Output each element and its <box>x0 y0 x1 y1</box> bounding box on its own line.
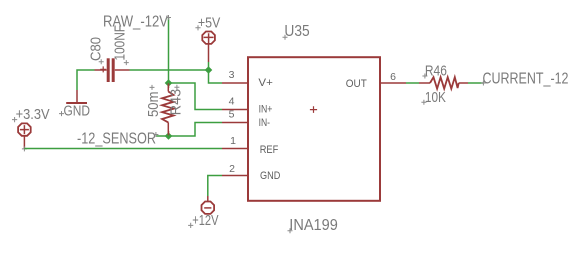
label origin cross CURRENT_-12 <box>481 81 486 86</box>
supply symbol +12V octagon <box>202 202 215 214</box>
label origin cross C80 <box>99 59 104 64</box>
gnd stem red <box>76 90 78 103</box>
svg-text:U35: U35 <box>284 23 309 40</box>
svg-text:OUT: OUT <box>346 78 367 90</box>
wire cap to +5V node <box>130 69 209 71</box>
label origin cross R46 <box>422 74 427 79</box>
wire C stub to label <box>156 135 168 137</box>
svg-text:R46: R46 <box>425 63 447 80</box>
svg-text:6: 6 <box>390 71 396 83</box>
label origin cross +12V <box>188 223 193 228</box>
polarity cross C80 <box>100 66 106 72</box>
wire RAW_-12V vertical <box>168 18 170 84</box>
+3.3V stem red <box>23 136 25 148</box>
junction B <box>205 66 213 74</box>
label origin cross GND <box>59 111 64 116</box>
resistor R43 bottom lead <box>167 122 169 136</box>
wire A to pin4 <box>169 83 223 110</box>
label origin cross 10K <box>421 100 426 105</box>
+5V cross inside <box>204 33 214 44</box>
pin 1 stub <box>222 148 248 150</box>
svg-text:1: 1 <box>230 135 236 147</box>
svg-text:V+: V+ <box>258 77 272 89</box>
wire cap to gnd <box>77 70 95 90</box>
resistor R46 left lead <box>419 82 430 84</box>
label origin cross -12_SENSOR <box>153 132 158 137</box>
label origin cross +3.3V <box>12 117 17 122</box>
svg-text:INA199: INA199 <box>289 217 338 234</box>
minus bar inside +12V <box>204 207 211 209</box>
svg-text:2: 2 <box>229 163 235 175</box>
wire +5V stem green <box>208 62 210 70</box>
svg-text:GND: GND <box>64 103 91 120</box>
wire +12V to pin2 <box>208 176 222 197</box>
svg-text:100NF: 100NF <box>112 25 129 61</box>
resistor R46 zigzag <box>430 77 459 89</box>
svg-text:GND: GND <box>260 170 280 182</box>
label origin cross R43 <box>174 85 179 90</box>
pin 3 stub <box>222 82 248 84</box>
svg-text:R43: R43 <box>168 89 185 116</box>
svg-text:4: 4 <box>229 96 235 108</box>
svg-text:5: 5 <box>229 109 235 121</box>
svg-text:10K: 10K <box>425 89 446 106</box>
resistor R43 lead over junction <box>168 83 170 88</box>
svg-text:+5V: +5V <box>198 14 220 31</box>
label origin cross RAW_-12V <box>166 15 171 20</box>
wire C to pin5 <box>169 123 223 137</box>
label origin cross 50m <box>150 85 155 90</box>
wire R46 to label <box>468 82 484 84</box>
svg-text:IN+: IN+ <box>259 104 273 116</box>
label origin cross INA199 <box>288 228 293 233</box>
wire pin6 to R46 <box>406 82 419 84</box>
capacitor C80 right lead <box>115 69 130 71</box>
svg-text:+12V: +12V <box>192 212 218 229</box>
+12V stem red <box>207 196 209 201</box>
svg-text:REF: REF <box>260 144 279 156</box>
pin 6 stub <box>380 82 406 84</box>
resistor R46 right lead <box>459 82 468 84</box>
supply symbol +5V octagon <box>202 32 215 44</box>
resistor R43 zigzag <box>162 92 174 123</box>
supply symbol +3.3V octagon <box>18 123 31 135</box>
symbol origin cross +3.3V <box>22 146 27 151</box>
label origin cross 100NF <box>124 60 129 65</box>
label origin cross U35 <box>283 35 288 40</box>
svg-text:50m: 50m <box>145 92 162 118</box>
junction C <box>165 132 173 140</box>
pin 2 stub <box>222 175 248 177</box>
+3.3V cross inside <box>20 125 29 134</box>
+5V stem red <box>208 44 210 62</box>
pin 4 stub <box>222 109 248 111</box>
capacitor C80 <box>107 58 110 82</box>
svg-text:C80: C80 <box>88 37 105 61</box>
svg-text:CURRENT_-12: CURRENT_-12 <box>483 71 569 88</box>
wire node to pin3 <box>209 70 223 83</box>
resistor R43 lead over junction <box>168 131 170 136</box>
svg-text:+3.3V: +3.3V <box>16 106 50 123</box>
junction A <box>165 79 173 87</box>
svg-text:-12_SENSOR: -12_SENSOR <box>77 131 156 148</box>
ground symbol bar <box>66 102 87 104</box>
wire +3.3V to REF pin1 <box>24 148 222 150</box>
op-amp U35 INA199 body <box>248 57 380 201</box>
svg-text:IN-: IN- <box>259 117 271 129</box>
svg-text:3: 3 <box>229 69 235 81</box>
pin 5 stub <box>222 122 248 124</box>
capacitor C80 left lead <box>95 69 107 71</box>
label origin cross +5V <box>195 25 200 30</box>
resistor R43 top lead <box>167 83 169 92</box>
part origin cross U35 <box>310 106 317 113</box>
